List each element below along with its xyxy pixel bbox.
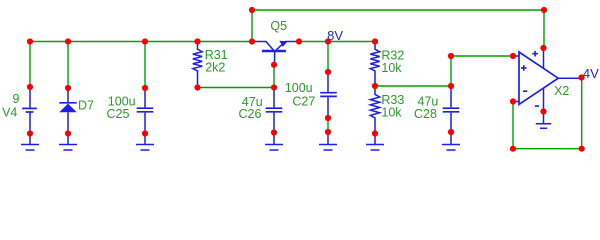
svg-text:100u: 100u	[285, 81, 313, 95]
svg-text:C25: C25	[107, 107, 130, 121]
svg-text:C28: C28	[414, 107, 437, 121]
svg-text:D7: D7	[78, 98, 94, 112]
svg-text:C26: C26	[239, 107, 262, 121]
svg-text:C27: C27	[292, 94, 315, 108]
svg-text:2k2: 2k2	[205, 61, 225, 75]
svg-text:10k: 10k	[381, 61, 402, 75]
svg-text:Q5: Q5	[270, 19, 287, 33]
svg-text:V4: V4	[2, 106, 17, 120]
svg-text:X2: X2	[554, 84, 569, 98]
svg-text:9: 9	[13, 92, 20, 106]
svg-text:4V: 4V	[583, 66, 599, 81]
svg-text:10k: 10k	[381, 105, 402, 119]
svg-text:8V: 8V	[327, 28, 343, 43]
